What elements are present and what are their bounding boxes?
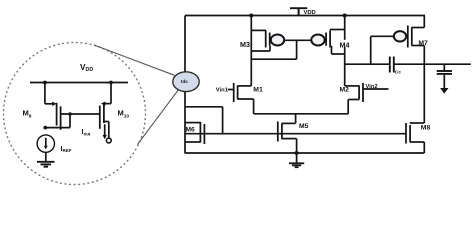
wire M3 diode tie [252, 40, 297, 59]
junction dot M5 source at ground rail [295, 151, 299, 155]
junction dot M9 source at rail [43, 81, 47, 85]
svg-text:M3: M3 [240, 40, 250, 49]
svg-text:M10: M10 [118, 108, 130, 119]
power rail VDD [185, 15, 425, 17]
transistor M3 [251, 16, 284, 86]
callout line lower [138, 89, 179, 144]
transistor M4 [311, 16, 344, 86]
svg-text:Idc: Idc [181, 79, 188, 85]
svg-text:Iout: Iout [82, 129, 91, 137]
current source Idc (ellipse) [173, 72, 199, 92]
transistor M7 [371, 16, 425, 65]
terminal circle Iout [106, 138, 111, 143]
power symbol VDD [290, 8, 307, 15]
ground rail bottom [185, 152, 425, 154]
transistor M6 [185, 107, 223, 144]
svg-text:M1: M1 [253, 87, 263, 94]
svg-text:Vin2: Vin2 [366, 84, 378, 90]
svg-text:M9: M9 [23, 109, 32, 120]
capacitor load CL [437, 64, 452, 93]
transistor M9 [45, 83, 70, 130]
junction dot M9 drain [43, 126, 47, 130]
capacitor Cc [390, 57, 394, 73]
wire bias line [185, 133, 406, 135]
svg-text:M7: M7 [418, 40, 428, 47]
junction dot gate wire [68, 112, 72, 116]
wire stage2 node [345, 63, 390, 65]
svg-text:M5: M5 [299, 123, 309, 130]
ground (main) [289, 163, 304, 167]
callout line upper [94, 45, 175, 75]
transistor M5 [278, 114, 297, 163]
wire left edge (Idc branch) [184, 16, 186, 154]
node VDD (circle) rail [30, 82, 128, 84]
label M4 (with white box over wire as in source) [339, 40, 351, 47]
svg-text:VDD: VDD [304, 10, 316, 16]
junction dot M4 at rail [343, 14, 347, 18]
wire output node [394, 63, 471, 65]
ground (circle) [37, 162, 55, 167]
junction dot M10 source at rail [109, 81, 113, 85]
svg-text:VDD: VDD [80, 62, 93, 73]
svg-text:Cc: Cc [395, 70, 401, 76]
transistor M10 [100, 83, 111, 139]
wire gate M3-M4 [284, 39, 312, 41]
arrow Iout [103, 124, 107, 139]
wire gate M9-M10 [60, 113, 100, 115]
svg-text:M8: M8 [421, 125, 431, 132]
transistor M2 [345, 83, 389, 114]
svg-text:M2: M2 [340, 87, 350, 94]
current source IREF [37, 135, 54, 162]
transistor M1 [228, 83, 254, 114]
svg-text:M4: M4 [340, 40, 350, 49]
transistor M8 [406, 123, 424, 153]
svg-text:IREF: IREF [61, 146, 72, 153]
wire tail node [254, 113, 349, 115]
svg-text:Vin1: Vin1 [216, 88, 229, 94]
svg-text:M6: M6 [186, 126, 195, 133]
wire output to M8 [423, 64, 425, 123]
junction dot M3 at rail [249, 14, 253, 18]
magnifier dashed circle [4, 43, 146, 185]
